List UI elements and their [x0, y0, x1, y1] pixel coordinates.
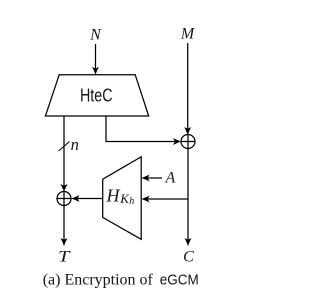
node M label [180, 26, 196, 43]
svg-text:T: T [58, 249, 71, 266]
svg-text:HteC: HteC [80, 86, 113, 106]
block HKh U2 [103, 157, 142, 240]
svg-text:A: A [165, 170, 176, 187]
svg-text:M: M [180, 26, 196, 43]
bus slash n [59, 135, 79, 154]
block HteC U1 [45, 75, 148, 116]
svg-text:(a) Encryption of: (a) Encryption of [43, 272, 154, 289]
svg-text:eGCM: eGCM [160, 272, 199, 289]
wire HKh output to X1 [71, 195, 103, 202]
caption (a) Encryption of eGCM [43, 272, 199, 289]
wire A input [141, 170, 175, 187]
wire C output down [185, 149, 192, 247]
svg-text:H: H [106, 186, 121, 206]
wire T output [61, 206, 68, 247]
node C label [183, 249, 194, 266]
xor X2 (right) [181, 135, 195, 149]
svg-text:n: n [71, 135, 79, 154]
node N label [89, 27, 102, 44]
svg-text:C: C [183, 249, 194, 266]
svg-text:h: h [129, 196, 134, 207]
wire HteC right output to X2 [106, 116, 181, 145]
wire HteC left output (n bits) [61, 116, 68, 192]
svg-text:N: N [89, 27, 102, 44]
wire N to HteC [92, 44, 99, 75]
node T label [58, 249, 71, 266]
wire M to X2 [184, 43, 191, 135]
xor X1 (left) [57, 192, 71, 206]
junction wire C to HKh [141, 196, 188, 203]
